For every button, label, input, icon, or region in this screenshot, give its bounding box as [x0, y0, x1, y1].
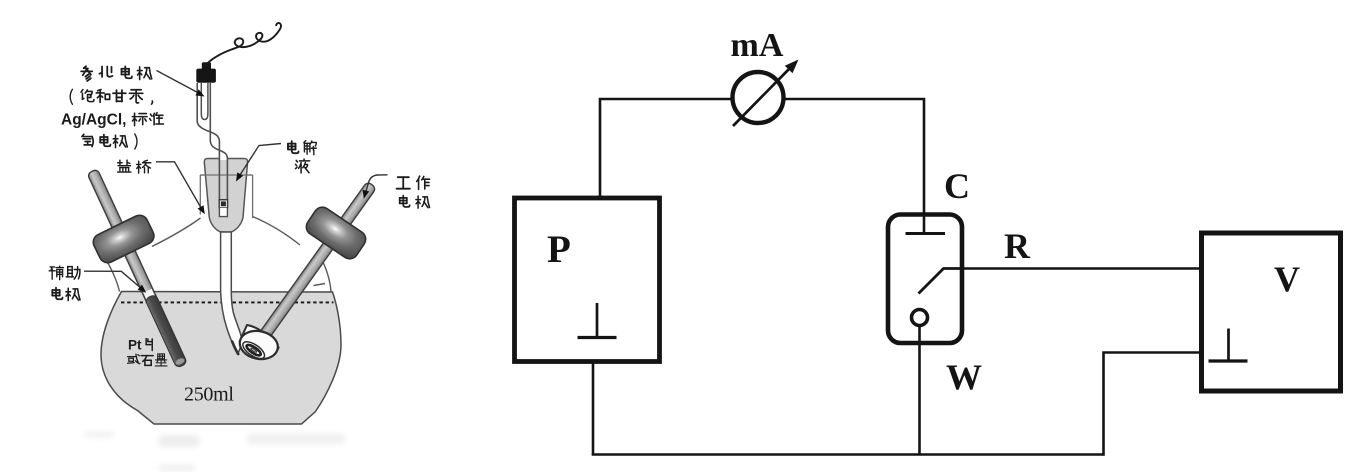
label: electrolyte — [288, 141, 316, 173]
label: salt bridge — [118, 160, 151, 173]
bottom bus wire — [592, 453, 1104, 456]
svg-text:C: C — [944, 166, 970, 206]
wire: ammeter to cell C — [783, 99, 924, 215]
reference electrode glass tube — [197, 83, 227, 160]
svg-text:Pt: Pt — [128, 338, 142, 353]
ground symbol in V — [1209, 329, 1248, 362]
wire: bottom to V lower terminal — [1104, 353, 1202, 456]
cell switch arm / R electrode — [919, 269, 963, 294]
working electrode rod — [256, 181, 377, 344]
flask body with liquid (250ml cell) — [101, 292, 341, 425]
salt bridge frit square — [219, 200, 227, 208]
liquid level (dashed) — [121, 301, 334, 303]
auxiliary electrode Pt tip — [145, 294, 188, 368]
pointer: reference electrode — [157, 71, 205, 97]
svg-text:mA: mA — [731, 27, 784, 64]
svg-text:P: P — [547, 228, 571, 271]
pointer: electrolyte — [236, 144, 281, 182]
left stopper — [90, 212, 156, 265]
inner tube of reference electrode — [201, 83, 208, 120]
electrolytic cell C (rounded box) — [888, 215, 962, 344]
svg-text:V: V — [1274, 259, 1300, 299]
wire: P top to ammeter — [600, 99, 733, 197]
auxiliary electrode rod — [87, 169, 187, 368]
ammeter mA — [733, 60, 799, 127]
label: working electrode — [397, 176, 430, 208]
label: Pt sheet or graphite — [128, 338, 167, 366]
cell W terminal circle — [912, 310, 928, 326]
center neck socket — [200, 175, 252, 218]
label: reference electrode (4 lines) — [61, 66, 164, 149]
box P (polarization power source) — [515, 198, 660, 362]
tube slot below frit — [219, 208, 227, 217]
cell top electrode C — [906, 212, 946, 234]
faint scan artifacts — [84, 431, 346, 471]
svg-text:Ag/AgCl,: Ag/AgCl, — [61, 112, 126, 129]
right stopper — [303, 204, 369, 262]
svg-text:250ml: 250ml — [184, 384, 234, 406]
socket rim over cup — [200, 174, 252, 176]
working electrode disc cylinder — [237, 325, 280, 362]
wire R: cell to V — [962, 267, 1201, 270]
pointer: working electrode — [363, 175, 388, 199]
curly lead wire — [205, 23, 281, 66]
svg-text:W: W — [946, 357, 982, 397]
pointer: salt bridge — [156, 162, 205, 215]
salt bridge stem into liquid — [221, 232, 242, 354]
flask neck walls and dome arcs — [108, 217, 332, 292]
electrolyte cup (ground glass cone) — [204, 159, 247, 233]
wire W: cell bottom to bus — [918, 326, 921, 455]
box V (voltmeter) — [1202, 233, 1341, 391]
pointer: auxiliary electrode — [84, 271, 146, 293]
stem dark tip — [232, 342, 238, 355]
reference electrode cap — [196, 62, 216, 82]
svg-text:R: R — [1004, 226, 1031, 266]
label: auxiliary electrode — [49, 266, 80, 300]
wire: P bottom down — [592, 362, 595, 455]
ground symbol in P — [578, 303, 617, 338]
